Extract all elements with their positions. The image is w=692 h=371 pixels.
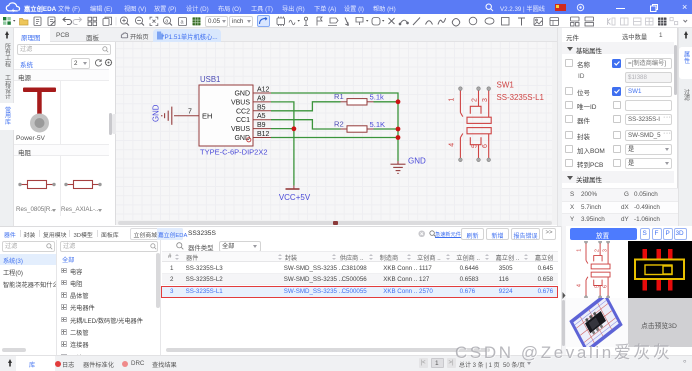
svg-text:6: 6: [482, 144, 489, 148]
junction dot B9/VCC: [292, 126, 297, 131]
ground symbol GND net: [391, 161, 406, 173]
svg-text:a: a: [181, 20, 185, 26]
resistor R2 5.1K: [334, 119, 385, 132]
power symbol VCC+5V: [279, 186, 311, 203]
svg-text:4: 4: [577, 284, 583, 287]
SW1 pin 6: [488, 134, 490, 158]
svg-text:5.1K: 5.1K: [370, 120, 386, 129]
wire A5 to R2: [271, 120, 341, 129]
junction dot R2/GND: [396, 127, 401, 132]
svg-text:A9: A9: [257, 95, 266, 102]
svg-text:1: 1: [577, 249, 583, 252]
svg-text:VBUS: VBUS: [231, 126, 250, 133]
svg-text:6: 6: [603, 285, 609, 288]
pin B9 (VBUS): [231, 122, 271, 133]
svg-text:5: 5: [472, 144, 479, 148]
svg-text:2: 2: [472, 98, 479, 102]
SW1 pin 2: [478, 90, 480, 106]
bottom tree column: [57, 240, 161, 355]
canvas scrollbars: [116, 220, 557, 225]
wire B12 to GND vertical: [271, 137, 398, 139]
bottom-left filter column: [0, 240, 57, 355]
pin B12 (GND): [234, 131, 271, 142]
svg-text:1: 1: [449, 97, 456, 101]
pin B5 (CC2): [236, 104, 271, 115]
SW1 pin 5: [478, 145, 480, 158]
junction dot B12/GND: [396, 135, 401, 140]
svg-text:CC1: CC1: [236, 117, 250, 124]
svg-text:7: 7: [188, 109, 192, 116]
svg-text:SW1: SW1: [497, 81, 515, 90]
svg-text:B5: B5: [257, 104, 266, 111]
SW1 upper contact bracket: [470, 106, 481, 114]
symbol preview pane: [566, 241, 628, 298]
svg-text:A5: A5: [257, 113, 266, 120]
ground symbol left of EH: [162, 107, 172, 125]
SW1 lower contact bracket: [470, 137, 481, 145]
svg-text:R1: R1: [334, 92, 344, 101]
SW1 pin numbers: [449, 97, 489, 148]
svg-text:GND: GND: [234, 91, 250, 98]
gray 3D hint pane: [628, 298, 692, 347]
svg-text:CC2: CC2: [236, 108, 250, 115]
svg-text:VBUS: VBUS: [231, 99, 250, 106]
wire A12 to GND net: [271, 93, 398, 161]
wire B9 to VCC vertical: [271, 128, 294, 130]
svg-text:B12: B12: [257, 131, 270, 138]
svg-text:EH: EH: [202, 112, 212, 121]
no-connect circle on pin B12: [247, 138, 251, 142]
svg-text:TYPE-C-6P-DIP2X2: TYPE-C-6P-DIP2X2: [200, 148, 268, 157]
switch SW1 SS-3235S-L1: [460, 90, 491, 158]
wire A9 to VCC net: [271, 102, 294, 186]
SW1 upper plate: [467, 117, 491, 123]
junction dot R1/GND: [396, 99, 401, 104]
svg-text:SS-3235S-L1: SS-3235S-L1: [497, 93, 544, 102]
connector USB1: [199, 75, 268, 157]
svg-text:3: 3: [482, 98, 489, 102]
pin A5 (CC1): [236, 113, 271, 124]
svg-text:5.1k: 5.1k: [370, 93, 385, 102]
svg-text:VCC+5V: VCC+5V: [279, 193, 311, 202]
svg-text:3: 3: [603, 249, 609, 252]
wire R1 right lead to GND vertical: [374, 101, 399, 103]
pin A12 (GND): [234, 87, 271, 98]
pin 7 (EH): [174, 109, 212, 121]
resistor R1 5.1k: [334, 92, 384, 105]
table area: [176, 242, 184, 250]
watermark: [455, 338, 673, 363]
svg-text:USB1: USB1: [200, 75, 220, 84]
SW1 pin 1: [460, 90, 462, 116]
footprint preview pane: [628, 241, 692, 298]
SW1 lower plate: [467, 128, 491, 134]
svg-text:5: 5: [595, 285, 601, 288]
wire B5 to R1: [271, 102, 341, 111]
svg-text:R2: R2: [334, 119, 344, 128]
preview area: [566, 226, 692, 371]
SW1 pin 3: [488, 90, 490, 117]
svg-text:2: 2: [595, 249, 601, 252]
svg-text:B9: B9: [257, 122, 266, 129]
pin A9 (VBUS): [231, 95, 271, 106]
svg-text:GND: GND: [408, 157, 426, 166]
wire R2 right lead to GND vertical: [374, 128, 399, 130]
svg-text:GND: GND: [152, 104, 161, 122]
SW1 pin 4: [460, 134, 462, 159]
svg-text:4: 4: [449, 143, 456, 147]
svg-text:A12: A12: [257, 87, 270, 94]
SW1 pin end dots: [459, 87, 491, 162]
3D preview pane: [566, 298, 628, 347]
